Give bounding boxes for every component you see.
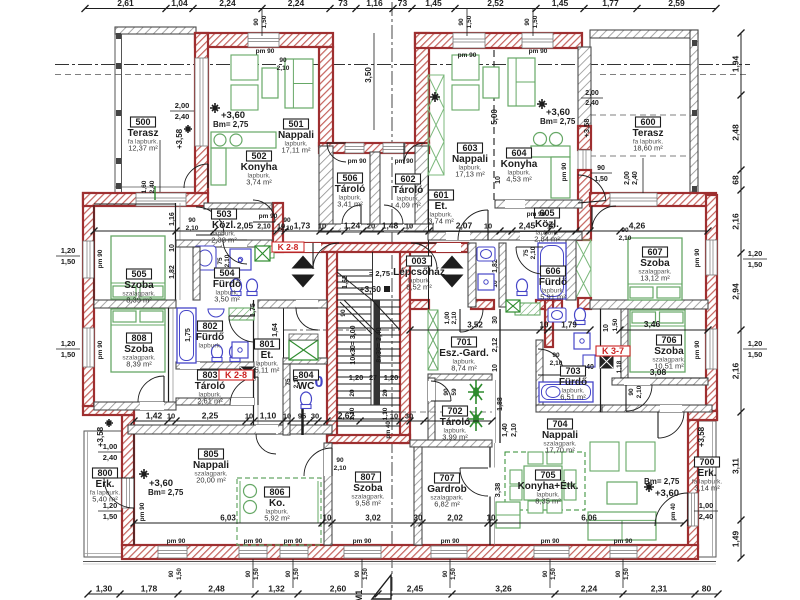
svg-text:90: 90 bbox=[616, 570, 622, 577]
svg-text:1,20: 1,20 bbox=[61, 246, 76, 255]
svg-text:2,10: 2,10 bbox=[511, 423, 518, 437]
svg-text:pm 90: pm 90 bbox=[97, 340, 104, 359]
svg-text:1,04: 1,04 bbox=[171, 0, 188, 8]
svg-text:90: 90 bbox=[458, 18, 465, 26]
svg-text:3,46: 3,46 bbox=[644, 319, 661, 329]
svg-text:2,60: 2,60 bbox=[330, 584, 347, 594]
svg-text:1,45: 1,45 bbox=[552, 0, 569, 8]
svg-text:30: 30 bbox=[492, 316, 499, 324]
svg-text:4,26: 4,26 bbox=[629, 221, 646, 231]
svg-text:10: 10 bbox=[390, 412, 398, 421]
svg-text:10: 10 bbox=[167, 412, 175, 421]
svg-text:1,32: 1,32 bbox=[268, 584, 285, 594]
svg-text:4,53 m²: 4,53 m² bbox=[506, 175, 532, 184]
svg-text:603: 603 bbox=[462, 143, 477, 153]
svg-text:10: 10 bbox=[487, 514, 496, 523]
svg-text:1,60: 1,60 bbox=[141, 180, 148, 193]
svg-text:1,10: 1,10 bbox=[260, 411, 277, 421]
svg-text:2,16: 2,16 bbox=[731, 362, 741, 379]
svg-text:pm 90: pm 90 bbox=[256, 48, 275, 55]
svg-text:90: 90 bbox=[621, 227, 629, 234]
svg-text:4,09 m²: 4,09 m² bbox=[395, 201, 421, 210]
svg-text:1,82: 1,82 bbox=[169, 265, 176, 279]
svg-text:pm 90: pm 90 bbox=[614, 538, 633, 545]
svg-text:602: 602 bbox=[400, 174, 415, 184]
svg-text:90: 90 bbox=[279, 57, 287, 64]
svg-text:3,74 m²: 3,74 m² bbox=[428, 217, 454, 226]
svg-text:1,42: 1,42 bbox=[146, 411, 163, 421]
svg-text:3,26: 3,26 bbox=[495, 584, 512, 594]
svg-text:2,45: 2,45 bbox=[407, 584, 424, 594]
svg-text:706: 706 bbox=[661, 335, 676, 345]
svg-text:13,12 m²: 13,12 m² bbox=[640, 274, 670, 283]
svg-text:75: 75 bbox=[217, 257, 224, 265]
svg-text:2,24: 2,24 bbox=[219, 0, 236, 8]
svg-text:27: 27 bbox=[369, 375, 377, 382]
svg-text:2,52: 2,52 bbox=[487, 0, 504, 8]
svg-text:2,05: 2,05 bbox=[237, 221, 254, 231]
svg-text:10x30= 3,00: 10x30= 3,00 bbox=[350, 325, 357, 364]
svg-text:Tároló: Tároló bbox=[393, 185, 424, 196]
svg-text:17,11 m²: 17,11 m² bbox=[281, 146, 311, 155]
svg-text:2,10: 2,10 bbox=[530, 246, 537, 259]
svg-text:1,75: 1,75 bbox=[250, 303, 257, 317]
svg-text:6,51 m²: 6,51 m² bbox=[560, 393, 586, 402]
svg-text:Szoba: Szoba bbox=[654, 346, 684, 357]
svg-text:90: 90 bbox=[188, 217, 196, 224]
svg-text:90: 90 bbox=[169, 570, 175, 577]
svg-text:Konyha+Étk.: Konyha+Étk. bbox=[518, 479, 579, 492]
svg-text:73: 73 bbox=[398, 0, 408, 8]
svg-text:+3,58: +3,58 bbox=[582, 119, 591, 138]
svg-text:10: 10 bbox=[245, 412, 253, 421]
svg-text:pm 90: pm 90 bbox=[541, 538, 560, 545]
svg-text:2,38 m²: 2,38 m² bbox=[211, 236, 237, 245]
svg-text:Terasz: Terasz bbox=[633, 128, 664, 139]
svg-text:+3,58: +3,58 bbox=[697, 426, 706, 447]
svg-text:2,40: 2,40 bbox=[632, 171, 639, 185]
svg-text:3,41 m²: 3,41 m² bbox=[337, 200, 363, 209]
svg-text:501: 501 bbox=[288, 119, 303, 129]
svg-text:pm 90: pm 90 bbox=[529, 48, 548, 55]
svg-text:pm 90: pm 90 bbox=[97, 249, 104, 268]
svg-text:K 3-7: K 3-7 bbox=[602, 346, 624, 356]
svg-text:801: 801 bbox=[259, 339, 274, 349]
svg-text:Et.: Et. bbox=[261, 350, 274, 361]
svg-text:3,52: 3,52 bbox=[467, 321, 483, 330]
svg-text:10: 10 bbox=[283, 412, 291, 421]
svg-text:808: 808 bbox=[131, 333, 146, 343]
svg-text:2,94: 2,94 bbox=[731, 283, 741, 300]
svg-text:pm 40: pm 40 bbox=[671, 503, 677, 521]
svg-text:704: 704 bbox=[552, 419, 567, 429]
svg-text:pm 40: pm 40 bbox=[386, 421, 392, 439]
svg-text:8,52 m²: 8,52 m² bbox=[406, 283, 432, 292]
svg-text:1,50: 1,50 bbox=[261, 15, 268, 28]
svg-text:40: 40 bbox=[586, 364, 594, 371]
svg-text:2,40: 2,40 bbox=[103, 453, 118, 462]
svg-text:Tároló: Tároló bbox=[440, 417, 471, 428]
svg-text:20: 20 bbox=[382, 389, 389, 397]
svg-text:pm 90: pm 90 bbox=[353, 538, 372, 545]
svg-text:Fürdő: Fürdő bbox=[213, 279, 241, 290]
svg-text:Ko.: Ko. bbox=[269, 498, 285, 509]
svg-text:8,39 m²: 8,39 m² bbox=[126, 360, 152, 369]
svg-text:607: 607 bbox=[647, 247, 662, 257]
svg-text:6,03: 6,03 bbox=[220, 514, 236, 523]
svg-text:90: 90 bbox=[597, 165, 605, 172]
svg-text:2,48: 2,48 bbox=[208, 584, 225, 594]
svg-text:= 2,75: = 2,75 bbox=[369, 269, 390, 278]
svg-text:1,20: 1,20 bbox=[748, 249, 763, 258]
svg-text:2,10: 2,10 bbox=[636, 385, 643, 398]
svg-text:1,79: 1,79 bbox=[561, 321, 577, 330]
svg-text:80: 80 bbox=[702, 584, 712, 594]
svg-text:+3,60: +3,60 bbox=[359, 284, 381, 294]
svg-text:18,60 m²: 18,60 m² bbox=[633, 144, 663, 153]
svg-text:2,00: 2,00 bbox=[585, 90, 599, 97]
svg-text:601: 601 bbox=[433, 190, 448, 200]
svg-text:2,10: 2,10 bbox=[451, 311, 458, 324]
svg-text:Terasz: Terasz bbox=[128, 128, 159, 139]
svg-text:2,61: 2,61 bbox=[117, 0, 134, 8]
svg-text:90: 90 bbox=[246, 570, 252, 577]
svg-text:30: 30 bbox=[405, 412, 413, 421]
svg-text:95: 95 bbox=[298, 412, 306, 421]
svg-text:702: 702 bbox=[447, 406, 462, 416]
svg-text:2,10: 2,10 bbox=[224, 254, 231, 267]
svg-text:8,39 m²: 8,39 m² bbox=[126, 296, 152, 305]
svg-text:1,20: 1,20 bbox=[748, 339, 763, 348]
svg-text:90: 90 bbox=[283, 217, 291, 224]
svg-text:1,24: 1,24 bbox=[344, 221, 361, 231]
svg-text:Esz.-Gard.: Esz.-Gard. bbox=[439, 348, 489, 359]
svg-text:Lépcsőház: Lépcsőház bbox=[393, 267, 445, 278]
svg-text:75: 75 bbox=[523, 249, 530, 257]
svg-text:2,59: 2,59 bbox=[668, 0, 685, 8]
svg-text:10: 10 bbox=[540, 321, 549, 330]
svg-text:Fürdő: Fürdő bbox=[196, 332, 224, 343]
svg-text:1,50: 1,50 bbox=[177, 568, 183, 580]
svg-text:17,70 m²: 17,70 m² bbox=[545, 446, 575, 455]
svg-text:6,06: 6,06 bbox=[581, 514, 597, 523]
svg-text:pm 90: pm 90 bbox=[395, 158, 414, 165]
svg-text:Nappali: Nappali bbox=[278, 130, 314, 141]
svg-text:1,50: 1,50 bbox=[451, 568, 457, 580]
svg-text:59: 59 bbox=[451, 388, 458, 396]
svg-text:Szoba: Szoba bbox=[124, 280, 154, 291]
svg-text:Konyha: Konyha bbox=[501, 159, 538, 170]
svg-text:Erk.: Erk. bbox=[698, 468, 717, 479]
svg-text:10: 10 bbox=[318, 222, 326, 231]
svg-text:2,12: 2,12 bbox=[490, 338, 499, 353]
svg-text:10: 10 bbox=[547, 222, 555, 231]
svg-text:2,16: 2,16 bbox=[731, 213, 741, 230]
svg-text:803: 803 bbox=[202, 370, 217, 380]
svg-text:90: 90 bbox=[336, 457, 344, 464]
svg-text:003: 003 bbox=[411, 256, 426, 266]
svg-text:1,50: 1,50 bbox=[254, 568, 260, 580]
svg-text:2,07: 2,07 bbox=[456, 221, 473, 231]
svg-text:3,02: 3,02 bbox=[365, 514, 381, 523]
svg-text:Fürdő: Fürdő bbox=[539, 277, 567, 288]
svg-text:2,62: 2,62 bbox=[338, 411, 355, 421]
svg-text:90: 90 bbox=[524, 18, 531, 26]
svg-text:2,10: 2,10 bbox=[619, 235, 632, 242]
svg-text:10: 10 bbox=[495, 176, 502, 184]
svg-text:2,10: 2,10 bbox=[277, 65, 290, 72]
svg-text:10: 10 bbox=[484, 222, 492, 231]
svg-text:90: 90 bbox=[355, 570, 361, 577]
svg-text:Bm= 2,75: Bm= 2,75 bbox=[644, 477, 680, 486]
svg-text:1,10: 1,10 bbox=[382, 407, 389, 420]
svg-text:700: 700 bbox=[699, 457, 714, 467]
svg-text:2,10: 2,10 bbox=[186, 225, 199, 232]
svg-text:1,49: 1,49 bbox=[731, 530, 741, 547]
svg-text:10: 10 bbox=[323, 514, 332, 523]
svg-text:1,00: 1,00 bbox=[699, 501, 714, 510]
svg-text:90: 90 bbox=[286, 570, 292, 577]
svg-text:1,20: 1,20 bbox=[103, 501, 118, 510]
svg-text:2,84 m²: 2,84 m² bbox=[534, 235, 560, 244]
svg-text:2,40: 2,40 bbox=[585, 100, 599, 107]
svg-text:504: 504 bbox=[219, 268, 234, 278]
svg-text:20: 20 bbox=[349, 389, 356, 397]
svg-text:1,16: 1,16 bbox=[366, 0, 383, 8]
svg-text:1,50: 1,50 bbox=[466, 15, 473, 28]
svg-text:K 2-8: K 2-8 bbox=[278, 242, 299, 252]
svg-text:703: 703 bbox=[565, 366, 580, 376]
svg-text:3,14 m²: 3,14 m² bbox=[694, 484, 720, 493]
svg-text:3,99 m²: 3,99 m² bbox=[442, 433, 468, 442]
svg-text:1,30: 1,30 bbox=[96, 584, 113, 594]
svg-text:805: 805 bbox=[203, 449, 218, 459]
svg-text:707: 707 bbox=[439, 473, 454, 483]
svg-text:1,40: 1,40 bbox=[502, 423, 509, 437]
svg-text:600: 600 bbox=[640, 117, 655, 127]
svg-text:1,88: 1,88 bbox=[497, 397, 504, 411]
svg-text:Nappali: Nappali bbox=[193, 460, 229, 471]
svg-text:2,40: 2,40 bbox=[699, 512, 714, 521]
svg-text:1,75: 1,75 bbox=[185, 328, 192, 342]
svg-text:1,77: 1,77 bbox=[602, 0, 619, 8]
svg-text:800: 800 bbox=[97, 468, 112, 478]
svg-text:Bm= 2,75: Bm= 2,75 bbox=[213, 120, 249, 129]
svg-text:1,50: 1,50 bbox=[551, 568, 557, 580]
svg-text:807: 807 bbox=[360, 472, 375, 482]
svg-text:pm 90: pm 90 bbox=[139, 502, 146, 521]
svg-text:10: 10 bbox=[603, 324, 610, 332]
svg-text:1,50: 1,50 bbox=[748, 350, 763, 359]
svg-text:802: 802 bbox=[202, 321, 217, 331]
svg-text:2,61 m²: 2,61 m² bbox=[197, 397, 223, 406]
svg-text:1,20: 1,20 bbox=[61, 339, 76, 348]
svg-text:1,45: 1,45 bbox=[425, 0, 442, 8]
svg-text:Et.: Et. bbox=[435, 201, 448, 212]
svg-text:5,00: 5,00 bbox=[490, 109, 499, 125]
svg-text:D: D bbox=[237, 258, 242, 265]
svg-text:75: 75 bbox=[285, 378, 292, 386]
svg-text:804: 804 bbox=[298, 370, 313, 380]
svg-text:Szoba: Szoba bbox=[353, 483, 383, 494]
svg-text:1,64: 1,64 bbox=[272, 323, 279, 337]
svg-text:5,92 m²: 5,92 m² bbox=[264, 514, 290, 523]
svg-text:M1: M1 bbox=[354, 590, 364, 600]
svg-text:lapburk.: lapburk. bbox=[198, 343, 221, 350]
svg-text:1,48: 1,48 bbox=[382, 221, 399, 231]
svg-text:2,00: 2,00 bbox=[624, 171, 631, 185]
svg-text:2,10: 2,10 bbox=[334, 465, 347, 472]
svg-text:pm 90: pm 90 bbox=[458, 52, 477, 59]
svg-text:Szoba: Szoba bbox=[640, 258, 670, 269]
svg-text:Konyha: Konyha bbox=[241, 162, 278, 173]
svg-text:5,11 m²: 5,11 m² bbox=[255, 366, 280, 375]
svg-text:1,50: 1,50 bbox=[532, 15, 539, 28]
svg-text:pm 90: pm 90 bbox=[244, 538, 263, 545]
svg-text:2,10: 2,10 bbox=[550, 360, 563, 367]
svg-text:1,50: 1,50 bbox=[294, 568, 300, 580]
svg-text:Bm= 2,75: Bm= 2,75 bbox=[148, 488, 184, 497]
svg-text:604: 604 bbox=[511, 148, 526, 158]
svg-text:1,16: 1,16 bbox=[169, 212, 176, 226]
svg-text:1,50: 1,50 bbox=[594, 176, 608, 183]
svg-text:1,94: 1,94 bbox=[731, 55, 741, 72]
svg-text:10: 10 bbox=[492, 364, 499, 372]
svg-text:1,20: 1,20 bbox=[384, 373, 399, 382]
svg-text:3,11: 3,11 bbox=[731, 458, 741, 474]
svg-text:3,74 m²: 3,74 m² bbox=[246, 178, 272, 187]
svg-text:10: 10 bbox=[405, 222, 413, 231]
svg-text:WC: WC bbox=[298, 381, 315, 392]
svg-text:+3,58: +3,58 bbox=[175, 128, 184, 149]
svg-text:17,13 m²: 17,13 m² bbox=[455, 170, 485, 179]
svg-text:3,50 m²: 3,50 m² bbox=[214, 295, 240, 304]
svg-text:2,10: 2,10 bbox=[257, 224, 271, 231]
svg-text:pm 90: pm 90 bbox=[694, 340, 701, 359]
svg-text:2,00: 2,00 bbox=[175, 101, 190, 110]
svg-text:20,00 m²: 20,00 m² bbox=[196, 476, 226, 485]
svg-text:pm 90: pm 90 bbox=[259, 213, 278, 220]
svg-text:8,74 m²: 8,74 m² bbox=[451, 364, 477, 373]
svg-text:pm 90: pm 90 bbox=[694, 248, 701, 267]
svg-text:1,62: 1,62 bbox=[342, 275, 349, 289]
svg-text:90: 90 bbox=[552, 352, 560, 359]
svg-text:90: 90 bbox=[443, 570, 449, 577]
svg-text:2,48: 2,48 bbox=[731, 124, 741, 141]
svg-text:1,73: 1,73 bbox=[294, 221, 311, 231]
svg-text:8x30= 2,40: 8x30= 2,40 bbox=[376, 327, 383, 362]
svg-text:1,50: 1,50 bbox=[612, 318, 619, 331]
svg-text:6,82 m²: 6,82 m² bbox=[434, 500, 460, 509]
svg-text:90: 90 bbox=[543, 570, 549, 577]
svg-text:1,78: 1,78 bbox=[141, 584, 158, 594]
svg-text:pm 90: pm 90 bbox=[441, 538, 460, 545]
svg-text:5,91 m²: 5,91 m² bbox=[540, 293, 566, 302]
svg-text:705: 705 bbox=[540, 470, 555, 480]
svg-text:1,50: 1,50 bbox=[61, 257, 76, 266]
svg-text:20: 20 bbox=[367, 222, 375, 231]
svg-text:pm 90: pm 90 bbox=[527, 211, 546, 218]
svg-text:12,37 m²: 12,37 m² bbox=[128, 144, 158, 153]
svg-text:90: 90 bbox=[253, 18, 260, 26]
svg-text:1,50: 1,50 bbox=[61, 350, 76, 359]
svg-text:505: 505 bbox=[131, 269, 146, 279]
svg-text:1,00: 1,00 bbox=[103, 442, 118, 451]
svg-text:1,50: 1,50 bbox=[624, 568, 630, 580]
svg-text:9,58 m²: 9,58 m² bbox=[355, 499, 381, 508]
svg-text:Fürdő: Fürdő bbox=[559, 377, 587, 388]
svg-text:pm 90: pm 90 bbox=[167, 538, 186, 545]
svg-text:10: 10 bbox=[169, 244, 176, 252]
svg-text:1,50: 1,50 bbox=[363, 568, 369, 580]
svg-text:1,50: 1,50 bbox=[103, 512, 118, 521]
svg-text:503: 503 bbox=[216, 209, 231, 219]
svg-text:90: 90 bbox=[340, 309, 347, 317]
svg-text:3,50: 3,50 bbox=[364, 67, 373, 83]
svg-text:Nappali: Nappali bbox=[452, 154, 488, 165]
svg-text:Tároló: Tároló bbox=[195, 381, 226, 392]
svg-text:pm 90: pm 90 bbox=[561, 162, 568, 181]
svg-text:Gardrob: Gardrob bbox=[427, 484, 466, 495]
svg-text:2,45: 2,45 bbox=[519, 221, 536, 231]
svg-text:2,24: 2,24 bbox=[288, 0, 305, 8]
svg-text:2,40: 2,40 bbox=[175, 112, 190, 121]
svg-text:506: 506 bbox=[342, 173, 357, 183]
svg-text:1,50: 1,50 bbox=[748, 260, 763, 269]
svg-text:90: 90 bbox=[628, 388, 635, 396]
svg-text:K 2-8: K 2-8 bbox=[225, 370, 247, 380]
svg-text:2,10: 2,10 bbox=[293, 375, 300, 388]
svg-text:806: 806 bbox=[269, 487, 284, 497]
svg-text:2,10: 2,10 bbox=[281, 225, 294, 232]
svg-text:701: 701 bbox=[456, 337, 471, 347]
svg-text:502: 502 bbox=[251, 151, 266, 161]
svg-text:Szoba: Szoba bbox=[124, 344, 154, 355]
svg-text:2,31: 2,31 bbox=[651, 584, 668, 594]
svg-text:1,18: 1,18 bbox=[616, 360, 623, 373]
svg-text:30: 30 bbox=[311, 412, 319, 421]
svg-text:Erk.: Erk. bbox=[96, 479, 115, 490]
svg-text:2,24: 2,24 bbox=[581, 584, 598, 594]
svg-text:3,38: 3,38 bbox=[493, 483, 502, 498]
svg-text:8,35 m²: 8,35 m² bbox=[535, 497, 561, 506]
svg-text:Bm= 2,75: Bm= 2,75 bbox=[540, 117, 576, 126]
svg-text:2,02: 2,02 bbox=[447, 514, 463, 523]
svg-text:pm 90: pm 90 bbox=[348, 158, 367, 165]
svg-text:500: 500 bbox=[135, 117, 150, 127]
svg-text:3,08: 3,08 bbox=[650, 367, 667, 377]
svg-text:+3,60: +3,60 bbox=[655, 488, 679, 499]
svg-text:606: 606 bbox=[545, 266, 560, 276]
svg-text:73: 73 bbox=[338, 0, 348, 8]
svg-text:Nappali: Nappali bbox=[542, 430, 578, 441]
svg-text:1,00: 1,00 bbox=[444, 311, 451, 324]
svg-text:2,40: 2,40 bbox=[149, 180, 156, 193]
svg-text:30: 30 bbox=[414, 514, 423, 523]
svg-text:1,20: 1,20 bbox=[349, 373, 364, 382]
svg-text:2,25: 2,25 bbox=[202, 411, 219, 421]
svg-text:Tároló: Tároló bbox=[335, 184, 366, 195]
svg-text:pm 90: pm 90 bbox=[284, 538, 303, 545]
svg-text:90: 90 bbox=[443, 388, 450, 396]
svg-text:68: 68 bbox=[731, 175, 741, 185]
